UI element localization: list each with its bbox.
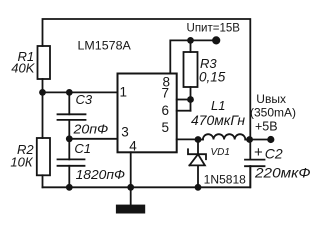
- svg-text:0,15: 0,15: [199, 70, 226, 85]
- svg-text:C3: C3: [76, 92, 93, 107]
- svg-text:4: 4: [129, 139, 137, 154]
- svg-text:40K: 40K: [11, 60, 35, 75]
- svg-text:+5В: +5В: [255, 120, 278, 134]
- svg-text:C1: C1: [74, 141, 91, 156]
- svg-text:1820пФ: 1820пФ: [76, 167, 125, 182]
- svg-text:Uвых: Uвых: [256, 92, 286, 106]
- svg-text:6: 6: [162, 103, 170, 118]
- svg-text:(350mA): (350mA): [250, 106, 296, 120]
- svg-text:Uпит=15В: Uпит=15В: [187, 21, 241, 35]
- svg-text:220мкФ: 220мкФ: [254, 165, 311, 181]
- svg-text:20пФ: 20пФ: [72, 122, 108, 137]
- svg-text:+: +: [254, 144, 263, 161]
- svg-text:5: 5: [162, 120, 170, 135]
- svg-text:470мкГн: 470мкГн: [191, 113, 246, 128]
- svg-text:C2: C2: [265, 146, 283, 162]
- svg-text:3: 3: [121, 125, 129, 140]
- svg-text:7: 7: [162, 85, 170, 100]
- svg-text:VD1: VD1: [211, 147, 230, 158]
- svg-text:1: 1: [120, 84, 128, 99]
- svg-text:1N5818: 1N5818: [204, 174, 246, 186]
- svg-text:L1: L1: [211, 98, 225, 113]
- svg-text:LM1578A: LM1578A: [78, 41, 132, 53]
- svg-text:10К: 10К: [10, 155, 33, 170]
